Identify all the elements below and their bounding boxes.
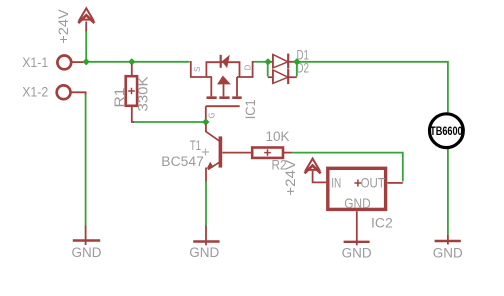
TB6600 node xyxy=(430,114,464,148)
svg-text:10K: 10K xyxy=(266,129,290,144)
svg-text:+24V: +24V xyxy=(283,160,298,196)
gate pin xyxy=(205,106,207,119)
wire R1 bottom to gate node xyxy=(133,121,204,123)
body diode triangle xyxy=(222,55,230,68)
svg-text:GND: GND xyxy=(189,245,219,260)
IC2 origin cross xyxy=(354,180,361,187)
svg-text:G: G xyxy=(208,112,217,118)
junction diode left xyxy=(264,58,271,65)
junction node B xyxy=(128,58,135,65)
svg-text:GND: GND xyxy=(72,245,102,260)
wire X1-2 to ground xyxy=(85,94,87,226)
connector pad X1-2 xyxy=(57,85,71,99)
svg-text:S: S xyxy=(193,67,202,73)
svg-text:IN: IN xyxy=(331,174,341,190)
svg-text:GND: GND xyxy=(342,246,372,261)
svg-text:GND: GND xyxy=(433,246,463,261)
supply +24V no.2 xyxy=(306,159,319,170)
svg-text:D: D xyxy=(244,64,253,70)
wire TB6600 to ground xyxy=(447,149,449,235)
pin S path xyxy=(191,61,212,77)
regulator IC2 xyxy=(328,168,386,209)
svg-text:T1: T1 xyxy=(190,138,201,153)
diode D1 xyxy=(265,61,273,63)
svg-text:TB6600: TB6600 xyxy=(430,124,463,138)
svg-text:+24V: +24V xyxy=(56,9,71,44)
svg-text:OUT: OUT xyxy=(361,174,386,190)
connector pad X1-1 xyxy=(57,56,71,70)
transistor T1 xyxy=(205,124,207,132)
substrate arrow xyxy=(217,76,231,85)
svg-text:R1: R1 xyxy=(112,88,127,108)
ground 1 xyxy=(85,226,87,246)
ground 3 xyxy=(344,241,370,243)
wire net +24V rail top xyxy=(89,61,190,63)
gate plate xyxy=(206,105,240,107)
svg-text:X1-2: X1-2 xyxy=(22,85,48,100)
wire D2 right vertical xyxy=(296,63,298,77)
wire supply1 drop xyxy=(85,31,87,61)
svg-text:IC2: IC2 xyxy=(371,215,393,230)
wire D2 left vertical xyxy=(267,63,269,77)
supply +24V no.1 xyxy=(80,8,93,19)
ground 4 xyxy=(447,235,449,245)
resistor R1 xyxy=(131,64,133,76)
svg-text:GND: GND xyxy=(344,195,370,211)
wire diodes to TB6600 xyxy=(299,62,448,113)
svg-text:IC1: IC1 xyxy=(243,99,258,119)
diode D2 xyxy=(268,76,273,78)
junction node A xyxy=(83,58,90,65)
wire drain to diodes xyxy=(253,61,265,63)
ground 2 xyxy=(205,226,207,246)
pin D path xyxy=(237,61,253,77)
wire R2 to IC2 OUT xyxy=(292,153,403,182)
mosfet legs xyxy=(211,77,237,96)
svg-text:330K: 330K xyxy=(136,77,151,112)
channel bars xyxy=(207,96,242,99)
body diode cathode bar xyxy=(220,55,222,68)
IC2 GND pin xyxy=(356,211,358,245)
resistor R2 xyxy=(252,148,283,158)
IC2 OUT pin xyxy=(388,182,403,184)
wire emitter to ground xyxy=(205,181,207,226)
svg-text:BC547: BC547 xyxy=(161,154,204,169)
body diode bridge xyxy=(206,62,239,77)
T1 origin cross xyxy=(202,149,209,156)
junction gate node xyxy=(202,118,209,125)
svg-text:X1-1: X1-1 xyxy=(22,55,48,70)
junction diode right xyxy=(293,58,300,65)
